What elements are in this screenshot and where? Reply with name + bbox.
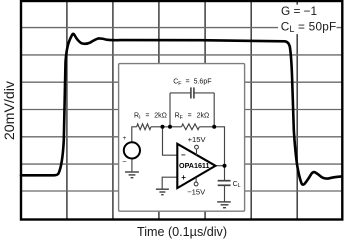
svg-text:Time (0.1µs/div): Time (0.1µs/div) [137, 225, 227, 239]
resistor RF zigzag [182, 124, 200, 130]
wire: minus input [163, 127, 178, 155]
ground (CL) [217, 202, 231, 208]
svg-text:OPA1611: OPA1611 [179, 161, 210, 170]
wire: RI to node2 [151, 126, 170, 128]
wire: CL to ground [224, 186, 226, 202]
node junction dot 1 [161, 125, 165, 129]
node junction dot 3 [212, 125, 216, 129]
svg-text:CL = 50pF: CL = 50pF [281, 19, 337, 34]
CF loop top left segment [170, 92, 191, 94]
svg-text:−: − [181, 150, 186, 159]
op-amp U1 triangle [177, 144, 215, 188]
svg-text:20mV/div: 20mV/div [2, 80, 18, 140]
capacitor CL plates [218, 181, 231, 186]
grid vertical lines [67, 1, 297, 220]
svg-text:+: + [123, 135, 127, 142]
svg-text:G = −1: G = −1 [281, 4, 317, 18]
source V1 circle [124, 142, 140, 158]
+15V pin stub [196, 149, 198, 155]
svg-text:−: − [122, 157, 127, 166]
grid horizontal lines [21, 28, 342, 191]
ground (plus input) [156, 189, 169, 195]
CF loop top right segment [194, 92, 214, 94]
waveform trace [21, 34, 342, 185]
wire: output node to CL [224, 166, 226, 181]
svg-text:−15V: −15V [187, 188, 206, 197]
schematic inset box [119, 64, 245, 212]
resistor RI zigzag [137, 124, 151, 130]
ground (source) [125, 172, 139, 178]
+15V pin circle [195, 145, 199, 149]
-15V pin stub [195, 178, 197, 183]
svg-text:+: + [181, 173, 186, 182]
annotation background halo [278, 5, 337, 34]
wire: node2 to RF [170, 126, 182, 128]
wire: RF to feedback corner [199, 127, 224, 166]
output node dot [223, 164, 227, 168]
wire: op-amp output [215, 165, 224, 167]
wire: source to ground [131, 159, 133, 172]
CF loop left vertical [169, 93, 171, 127]
capacitor CF plates [190, 87, 192, 98]
svg-text:+15V: +15V [188, 135, 207, 144]
wire: plus input [162, 177, 177, 189]
wire: source up to main row [132, 127, 137, 142]
CF loop right vertical [213, 93, 215, 127]
node junction dot 2 [168, 125, 172, 129]
-15V pin circle [194, 182, 198, 186]
